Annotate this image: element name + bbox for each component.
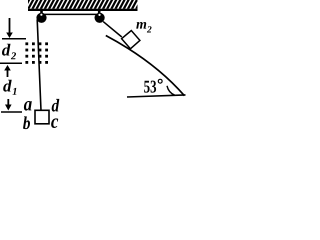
label 53deg — [144, 81, 156, 93]
string from pulley P2 to block m2 — [103, 22, 122, 37]
arrow down to tick3 — [7, 99, 9, 106]
ceiling bottom edge — [28, 9, 138, 11]
degree sign — [158, 79, 162, 83]
label a — [24, 101, 32, 111]
pulley P1 — [36, 13, 46, 23]
label d2 — [2, 44, 11, 56]
label d1 — [3, 80, 12, 92]
tick1 — [2, 38, 26, 40]
label c — [51, 118, 58, 128]
pulley P1 stem — [40, 11, 43, 15]
incline surface — [106, 36, 185, 96]
angle arc — [167, 86, 175, 95]
label d — [52, 99, 60, 112]
block m2 — [122, 31, 140, 49]
label b — [23, 116, 30, 129]
arrow down to tick1 — [9, 18, 11, 34]
timing dot grid — [25, 42, 28, 45]
arrow up to tick2 — [4, 65, 11, 71]
label m2 — [136, 22, 146, 29]
tick3 — [1, 111, 22, 113]
tick2 — [0, 62, 22, 64]
block abcd — [35, 110, 49, 124]
incline base — [127, 95, 186, 97]
string between pulleys — [43, 13, 97, 15]
string from pulley P1 down to block abcd — [37, 20, 41, 111]
pulley P2 — [95, 13, 105, 23]
pulley P2 stem — [98, 11, 101, 15]
ceiling hatching — [24, 0, 141, 9]
